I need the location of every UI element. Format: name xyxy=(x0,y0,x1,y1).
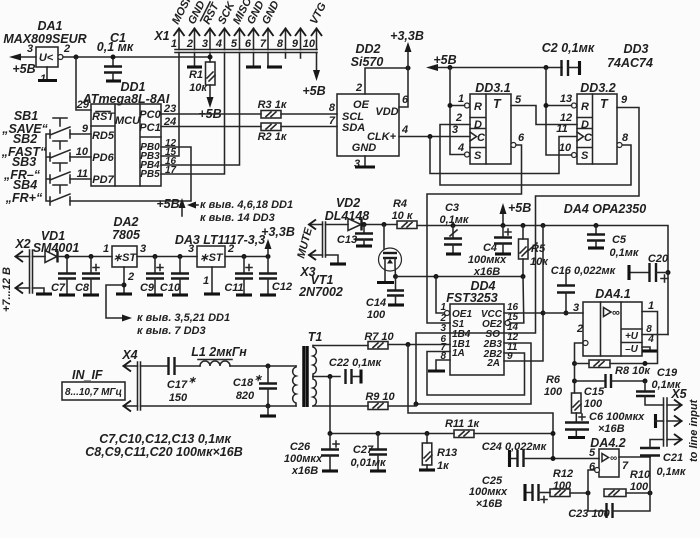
node junction clock branch xyxy=(428,134,433,139)
wire DA4.1 +U to +5V vertical xyxy=(642,334,668,336)
resistor R5 10к xyxy=(519,226,550,277)
button SB3 FR- xyxy=(3,155,70,183)
svg-text:S: S xyxy=(581,150,589,162)
svg-text:RD5: RD5 xyxy=(92,130,115,142)
wire X2 to VD1 xyxy=(33,256,46,258)
X1 pin 6 arrow xyxy=(245,29,259,51)
svg-text:U<: U< xyxy=(39,52,54,64)
wire DA1 pin1 to ground xyxy=(46,67,48,80)
ground bar DD4 xyxy=(428,369,445,372)
capacitor C10 xyxy=(160,257,189,295)
svg-text:C11: C11 xyxy=(224,282,243,294)
X1 pin 5 arrow xyxy=(231,29,245,51)
svg-text:23: 23 xyxy=(163,103,176,115)
svg-text:T: T xyxy=(493,97,502,111)
svg-text:3: 3 xyxy=(202,38,208,50)
wire mute to DD4 OE2 xyxy=(510,277,524,324)
node junction R5 bottom on mute rail xyxy=(521,274,526,279)
capacitor C25 100мк 16В polarized xyxy=(469,475,550,510)
wire X1 pin8 stub xyxy=(285,53,287,59)
svg-text:6: 6 xyxy=(518,132,525,144)
ground bar DA2 xyxy=(116,292,132,295)
resistor R8 10к xyxy=(575,360,652,377)
node junction RST/R1 xyxy=(208,55,213,60)
ground bar below DA1 xyxy=(38,79,57,82)
ground bar below C5 xyxy=(588,246,604,249)
svg-text:C5: C5 xyxy=(612,234,627,246)
svg-text:GND: GND xyxy=(352,142,377,154)
svg-text:VDD: VDD xyxy=(375,106,398,118)
svg-text:C15: C15 xyxy=(584,386,605,398)
X1 pin 3 arrow xyxy=(202,29,216,51)
svg-text:C14: C14 xyxy=(366,297,386,309)
node junction R8 right xyxy=(643,361,648,366)
svg-text:C18: C18 xyxy=(233,377,254,389)
connector X4 IF input xyxy=(121,348,140,412)
wire R1 to +5V arrow xyxy=(209,85,211,98)
wire X1 pin10 VTG to +5V xyxy=(316,53,318,72)
wire X1 pin7 to ground xyxy=(267,53,269,67)
svg-text:2: 2 xyxy=(186,38,193,50)
svg-text:IN_IF: IN_IF xyxy=(72,368,103,382)
wire buttons common bus xyxy=(46,134,50,201)
wire SB2 to DD1 PD6 xyxy=(70,156,91,158)
svg-text:C: C xyxy=(477,132,486,144)
ground bar below C6 xyxy=(568,436,585,439)
svg-text:R13: R13 xyxy=(437,447,457,459)
wire DD2 VDD pin6 xyxy=(399,68,408,107)
X1 pin 7 arrow xyxy=(260,29,274,51)
wire DD2 CLK to DD3.1 C input xyxy=(399,136,470,138)
wire DD4 VCC pin16 xyxy=(504,312,543,314)
svg-text:„FR+“: „FR+“ xyxy=(5,191,43,205)
svg-text:8: 8 xyxy=(622,132,629,144)
node junction VT1 drain xyxy=(393,274,398,279)
capacitor C15 100 xyxy=(575,374,646,410)
svg-text:820: 820 xyxy=(236,390,255,402)
node junction C15 left xyxy=(572,379,577,384)
ground bar X1 pin7 xyxy=(267,65,282,68)
button SB2 FAST xyxy=(1,132,70,161)
svg-text:2: 2 xyxy=(227,243,234,255)
node junction VT1 gate xyxy=(382,222,387,227)
DA4.1 inverting input circle xyxy=(583,341,588,346)
svg-text:C19: C19 xyxy=(657,367,678,379)
svg-text:2N7002: 2N7002 xyxy=(298,285,343,299)
DD3.2 S input circle xyxy=(572,153,577,158)
capacitor C21 0,1мк xyxy=(640,440,687,479)
svg-text:3: 3 xyxy=(27,43,33,55)
wire X4 bottom line to T1 primary bottom xyxy=(141,405,297,407)
node junction C7 xyxy=(65,254,70,259)
svg-text:DD3: DD3 xyxy=(623,42,648,56)
wire DD2 GND pin3 xyxy=(364,156,366,166)
wire DA4.1 output pin1 down to feedback right node xyxy=(642,312,658,364)
node junction C26 xyxy=(328,431,333,436)
flip-flop DD3.2 body xyxy=(577,81,617,164)
wire X2 lower pin to ground xyxy=(33,288,45,293)
svg-text:∗: ∗ xyxy=(188,375,197,386)
svg-text:10к: 10к xyxy=(530,256,549,268)
node junction +3,3V at DD2 xyxy=(406,66,411,71)
svg-text:R10: R10 xyxy=(630,469,651,481)
svg-text:DD3.1: DD3.1 xyxy=(475,81,510,95)
svg-text:∞: ∞ xyxy=(610,453,617,464)
svg-text:DD2: DD2 xyxy=(355,42,380,56)
svg-text:100: 100 xyxy=(544,386,563,398)
power +3,3V arrow at DD2 xyxy=(390,29,424,68)
power +5V arrow down below R1 xyxy=(198,97,221,121)
ground bar DD2 xyxy=(355,165,375,168)
wire L1 to T1 primary xyxy=(230,365,296,367)
svg-text:1: 1 xyxy=(440,302,446,313)
svg-text:∗ST: ∗ST xyxy=(199,252,224,264)
mute line X3 connector xyxy=(299,220,325,280)
svg-text:2: 2 xyxy=(127,271,134,283)
capacitor C8 polarized xyxy=(75,257,100,295)
capacitor C9 polarized xyxy=(140,257,164,295)
capacitor C5 0,1мк xyxy=(587,226,640,260)
X1 pin 10 arrow xyxy=(303,29,322,51)
opamp DA4.1 body xyxy=(583,287,642,356)
svg-text:SB2: SB2 xyxy=(13,132,37,146)
multiplexer DD4 FST3253 body xyxy=(446,279,504,375)
wire T1 secondary tap xyxy=(313,376,340,378)
svg-text:C7,C10,C12,C13 0,1мк: C7,C10,C12,C13 0,1мк xyxy=(99,432,231,446)
svg-text:+3,3В: +3,3В xyxy=(261,225,295,239)
svg-text:3: 3 xyxy=(188,243,194,255)
resistor R13 1к xyxy=(422,434,457,473)
ground bar below C10 xyxy=(172,293,188,296)
resistor R12 100 xyxy=(550,468,588,497)
ground bar X5 middle pin xyxy=(656,414,664,428)
ground bar right of C2 xyxy=(578,61,581,75)
svg-text:C4: C4 xyxy=(483,242,497,254)
svg-text:C24 0,022мк: C24 0,022мк xyxy=(482,441,548,453)
power +5V arrow down at X1 pin10 xyxy=(302,70,325,98)
power +5V arrow feed note near DD1 xyxy=(156,197,185,216)
svg-text:SDA: SDA xyxy=(342,122,365,134)
svg-text:SB1: SB1 xyxy=(14,109,38,123)
supervisor DA1 MAX809SEUR xyxy=(3,19,86,67)
svg-text:×16В: ×16В xyxy=(476,498,503,510)
svg-text:DA2: DA2 xyxy=(113,215,138,229)
node junction +5V at DD3.1 pullup xyxy=(448,65,453,70)
svg-text:OE: OE xyxy=(353,99,370,111)
svg-text:4: 4 xyxy=(215,38,222,50)
X1 pin 9 arrow xyxy=(292,29,306,51)
capacitor C14 100 xyxy=(366,277,404,322)
svg-text:to line input: to line input xyxy=(688,398,700,462)
net label RST pin3 xyxy=(201,0,223,26)
svg-text:1A: 1A xyxy=(452,348,465,359)
capacitor C26 100мк 16В polarized xyxy=(284,434,339,478)
ground bar below C12 xyxy=(260,293,276,296)
wire X1 pin4 SCK down to DD1 PB5 xyxy=(161,53,225,175)
ground bar below C14 xyxy=(388,303,404,306)
svg-text:100мкх: 100мкх xyxy=(468,254,507,266)
svg-text:T: T xyxy=(600,97,609,111)
node junction C8 xyxy=(89,254,94,259)
diode VD1 SM4001 xyxy=(33,229,80,263)
svg-text:8: 8 xyxy=(277,38,284,50)
capacitor C17 150 xyxy=(167,357,197,404)
DD3.2 R input circle xyxy=(572,103,577,108)
frequency note box 8...10,7 МГц xyxy=(62,382,125,400)
svg-text:–U: –U xyxy=(625,344,639,355)
resistor R7 10 xyxy=(364,331,394,349)
regulator DA2 7805 xyxy=(112,215,141,267)
svg-text:R1: R1 xyxy=(189,69,203,81)
node junction DD3.1 R pullup xyxy=(448,103,453,108)
ground bar below R13 xyxy=(419,468,435,471)
svg-text:1: 1 xyxy=(458,93,464,105)
svg-text:4: 4 xyxy=(647,334,654,345)
ground bar DA4.1 xyxy=(642,349,657,352)
svg-text:R8 10к: R8 10к xyxy=(615,365,651,377)
ground bar X1 pin2 xyxy=(187,65,202,68)
ground bar below C8 xyxy=(83,293,99,296)
svg-text:9: 9 xyxy=(292,38,299,50)
svg-text:к выв. 3,5,21 DD1: к выв. 3,5,21 DD1 xyxy=(137,312,230,324)
svg-text:х16В: х16В xyxy=(473,266,500,278)
svg-text:SB3: SB3 xyxy=(12,155,36,169)
svg-text:R: R xyxy=(474,101,482,113)
regulator DA3 LT1117-3,3 xyxy=(175,233,265,267)
resistor R6 100 xyxy=(544,374,581,423)
wire DD3.1 Q pin5 to DD3.2 D pin12 xyxy=(511,106,577,125)
wire VD2 cathode to gate node xyxy=(362,224,398,226)
wire bottom bias rail xyxy=(330,433,454,435)
node junction DA4.2 plus input xyxy=(551,456,556,461)
node junction R7 line loop3 xyxy=(406,342,411,347)
wire SB3 to DD1 PD7 xyxy=(70,178,91,180)
svg-text:13: 13 xyxy=(560,93,572,105)
ground bar left of C20 xyxy=(627,265,630,280)
svg-text:C12: C12 xyxy=(272,281,292,293)
X1 pin 4 arrow xyxy=(215,29,230,51)
svg-text:C16 0,022мк: C16 0,022мк xyxy=(551,265,617,277)
svg-text:PD6: PD6 xyxy=(92,152,114,164)
X1 pin 8 arrow xyxy=(277,29,291,51)
capacitor C4 100мк 16В polarized xyxy=(468,226,512,279)
svg-text:VD2: VD2 xyxy=(336,196,360,210)
svg-text:R6: R6 xyxy=(546,374,561,386)
svg-text:3: 3 xyxy=(573,302,579,314)
node junction C20 on rail vertical xyxy=(666,270,671,275)
svg-text:8: 8 xyxy=(329,102,336,114)
svg-text:100: 100 xyxy=(367,309,386,321)
wire DA3 pin1 ground xyxy=(211,267,213,293)
DD4 OE2 circle xyxy=(505,321,510,326)
svg-text:C20: C20 xyxy=(648,253,669,265)
button SB4 FR+ xyxy=(5,178,70,205)
X1 pin 2 arrow xyxy=(186,29,200,51)
svg-text:×16В: ×16В xyxy=(598,423,625,435)
svg-text:0,1 мк: 0,1 мк xyxy=(97,40,134,54)
wire DD4 VCC line to DA4.1 pin3 xyxy=(543,312,583,314)
node junction R8 left xyxy=(572,361,577,366)
svg-text:C8: C8 xyxy=(75,282,90,294)
ground bar below C13 xyxy=(356,244,372,247)
wire C17 to L1 xyxy=(175,365,201,367)
svg-text:PC0: PC0 xyxy=(139,109,161,121)
node junction DA2 pin2 xyxy=(122,283,127,288)
svg-text:2: 2 xyxy=(355,82,362,94)
svg-text:DA1: DA1 xyxy=(37,19,62,33)
svg-text:+5В: +5В xyxy=(302,84,325,98)
wire loop3 1B1 to DA4.2 input node xyxy=(408,345,553,459)
svg-text:C7: C7 xyxy=(51,282,66,294)
flip-flop DD3.1 body xyxy=(470,81,511,164)
wire X1 pin6 to ground xyxy=(253,53,255,67)
svg-text:+5В: +5В xyxy=(156,197,179,211)
svg-text:∗ST: ∗ST xyxy=(113,252,138,264)
svg-text:0,1мк: 0,1мк xyxy=(609,247,639,259)
wire reset net DA1 out to R1/X1 pin3 xyxy=(63,56,210,58)
button SB1 SAVE xyxy=(1,109,70,138)
svg-text:7805: 7805 xyxy=(112,228,141,242)
resistor R4 10к xyxy=(392,198,417,229)
svg-text:10к: 10к xyxy=(189,82,208,94)
wire DA2 pin2 down xyxy=(123,267,125,293)
wire 3,3V rail DA3 to C12 xyxy=(225,256,268,258)
svg-text:X2: X2 xyxy=(14,237,30,251)
wire DA4.1 -U to ground xyxy=(642,347,650,350)
wire T1 secondary bottom to R9 xyxy=(313,405,368,407)
inductor L1 2мкГн xyxy=(191,345,247,366)
resistor R3 1к xyxy=(161,99,337,118)
svg-text:C26: C26 xyxy=(290,441,311,453)
svg-text:7: 7 xyxy=(622,460,629,472)
node junction C11 xyxy=(242,254,247,259)
capacitor C7 xyxy=(51,257,76,295)
wire mute to DD4 OE1 xyxy=(436,277,445,314)
svg-text:C: C xyxy=(584,132,593,144)
svg-text:к выв. 7 DD3: к выв. 7 DD3 xyxy=(137,325,206,337)
ground bar below C26 xyxy=(322,469,338,472)
svg-text:2: 2 xyxy=(576,323,583,335)
svg-text:DD3.2: DD3.2 xyxy=(580,81,615,95)
svg-text:10: 10 xyxy=(303,38,316,50)
ground bar X2 xyxy=(36,292,52,295)
svg-text:DA4.1: DA4.1 xyxy=(595,287,630,301)
svg-text:C2 0,1мк: C2 0,1мк xyxy=(542,41,595,55)
DD3.2 Q-bar output circle xyxy=(617,143,622,148)
svg-text:8...10,7 МГц: 8...10,7 МГц xyxy=(65,387,122,398)
wire DD3.1 D pin2 feedback from DD3.2 pin8 xyxy=(440,125,631,186)
transformer T1 xyxy=(293,330,323,407)
node junction reset at x75 xyxy=(74,55,79,60)
svg-text:0,1мк: 0,1мк xyxy=(439,214,469,226)
capacitor C24 0,022мк xyxy=(482,441,599,467)
svg-text:5: 5 xyxy=(589,447,596,459)
svg-text:х16В: х16В xyxy=(291,465,318,477)
node junction DD3.2 R pullup xyxy=(544,103,549,108)
wire X1 pin9 stub xyxy=(300,53,302,59)
wire DD4 pin3 1B4 to R9 loop xyxy=(416,333,450,404)
opamp DA4.2 body xyxy=(590,436,625,477)
wire X3 mute pin to VD2 xyxy=(326,224,349,226)
ground bar below C9 xyxy=(147,293,163,296)
svg-text:10 к: 10 к xyxy=(392,210,414,222)
svg-text:S: S xyxy=(474,150,482,162)
node junction R13 xyxy=(425,431,430,436)
wire DA4.2 pin6 to R12 node xyxy=(588,470,595,493)
svg-text:DA4 OPA2350: DA4 OPA2350 xyxy=(564,202,646,216)
svg-text:4: 4 xyxy=(457,142,464,154)
wire DD4 pin7 1A to pin11 2B2 loop xyxy=(427,352,525,396)
svg-text:C3: C3 xyxy=(445,202,459,214)
wire DD3.2 R and S tied to +5V xyxy=(546,68,572,156)
DD4 OE1 circle xyxy=(445,311,450,316)
svg-text:29: 29 xyxy=(76,99,90,111)
node junction DD4 VCC feed on rail xyxy=(541,223,546,228)
diode VD2 DL4148 xyxy=(325,196,370,231)
ground bar below C3 xyxy=(446,252,461,255)
svg-text:R3 1к: R3 1к xyxy=(258,99,288,111)
svg-text:C21: C21 xyxy=(663,452,683,464)
node junction C12 riser xyxy=(266,254,271,259)
svg-text:X5: X5 xyxy=(670,387,687,401)
svg-text:∞: ∞ xyxy=(612,307,620,319)
node junction C5 on rail xyxy=(594,223,599,228)
svg-text:C6 100мкх: C6 100мкх xyxy=(589,411,645,423)
svg-text:6: 6 xyxy=(245,38,252,50)
ground bar below C27 xyxy=(370,469,386,472)
svg-text:DA4.2: DA4.2 xyxy=(590,436,625,450)
capacitor C22 0,1мк xyxy=(329,357,383,384)
svg-text:17: 17 xyxy=(165,165,177,176)
capacitor C19 0,1мк xyxy=(636,367,682,405)
wire output node vertical xyxy=(649,457,651,493)
svg-text:PD7: PD7 xyxy=(92,174,114,186)
transistor VT1 2N7002 xyxy=(298,225,401,300)
svg-text:FST3253: FST3253 xyxy=(446,291,497,305)
svg-text:PB5: PB5 xyxy=(140,169,160,180)
svg-text:R11 1к: R11 1к xyxy=(445,418,481,430)
capacitor C13 xyxy=(337,225,373,247)
wire reset branch down to DD1 RST xyxy=(76,57,91,110)
capacitor C16 0,022мк xyxy=(551,265,617,313)
DD3.1 R input circle xyxy=(465,103,470,108)
power +5V arrow up on rail xyxy=(500,201,532,226)
svg-text:SM4001: SM4001 xyxy=(33,241,80,255)
wire X3 lower pin to ground xyxy=(326,255,339,263)
resistor R1 10к xyxy=(189,62,215,94)
ground bar below C18 xyxy=(260,414,276,417)
svg-text:1к: 1к xyxy=(437,460,450,472)
capacitor C11 polarized xyxy=(224,257,253,295)
svg-text:1: 1 xyxy=(171,38,177,50)
connector X2 power input xyxy=(14,237,32,294)
wire DD3.2 Q pin9 to DD4 S0 xyxy=(450,108,639,334)
ground bar X1 pin6 xyxy=(246,65,261,68)
svg-text:5: 5 xyxy=(231,38,238,50)
node junction R10 right xyxy=(648,491,653,496)
svg-text:D: D xyxy=(581,119,589,131)
svg-text:1: 1 xyxy=(648,300,654,312)
wire DD3.1 Q-bar pin6 to DD4 S1 xyxy=(427,145,522,323)
node junction C15 right xyxy=(643,379,648,384)
svg-text:R: R xyxy=(581,101,589,113)
node junction C18 bottom xyxy=(266,404,271,409)
note arrow к выв 3,5,21 DD1 xyxy=(122,312,230,337)
capacitor C18 820 xyxy=(233,366,277,406)
wire bracket to DD1 power note xyxy=(106,285,124,318)
svg-text:+5В: +5В xyxy=(508,201,531,215)
wire SB1 to DD1 RD5 xyxy=(70,133,91,135)
